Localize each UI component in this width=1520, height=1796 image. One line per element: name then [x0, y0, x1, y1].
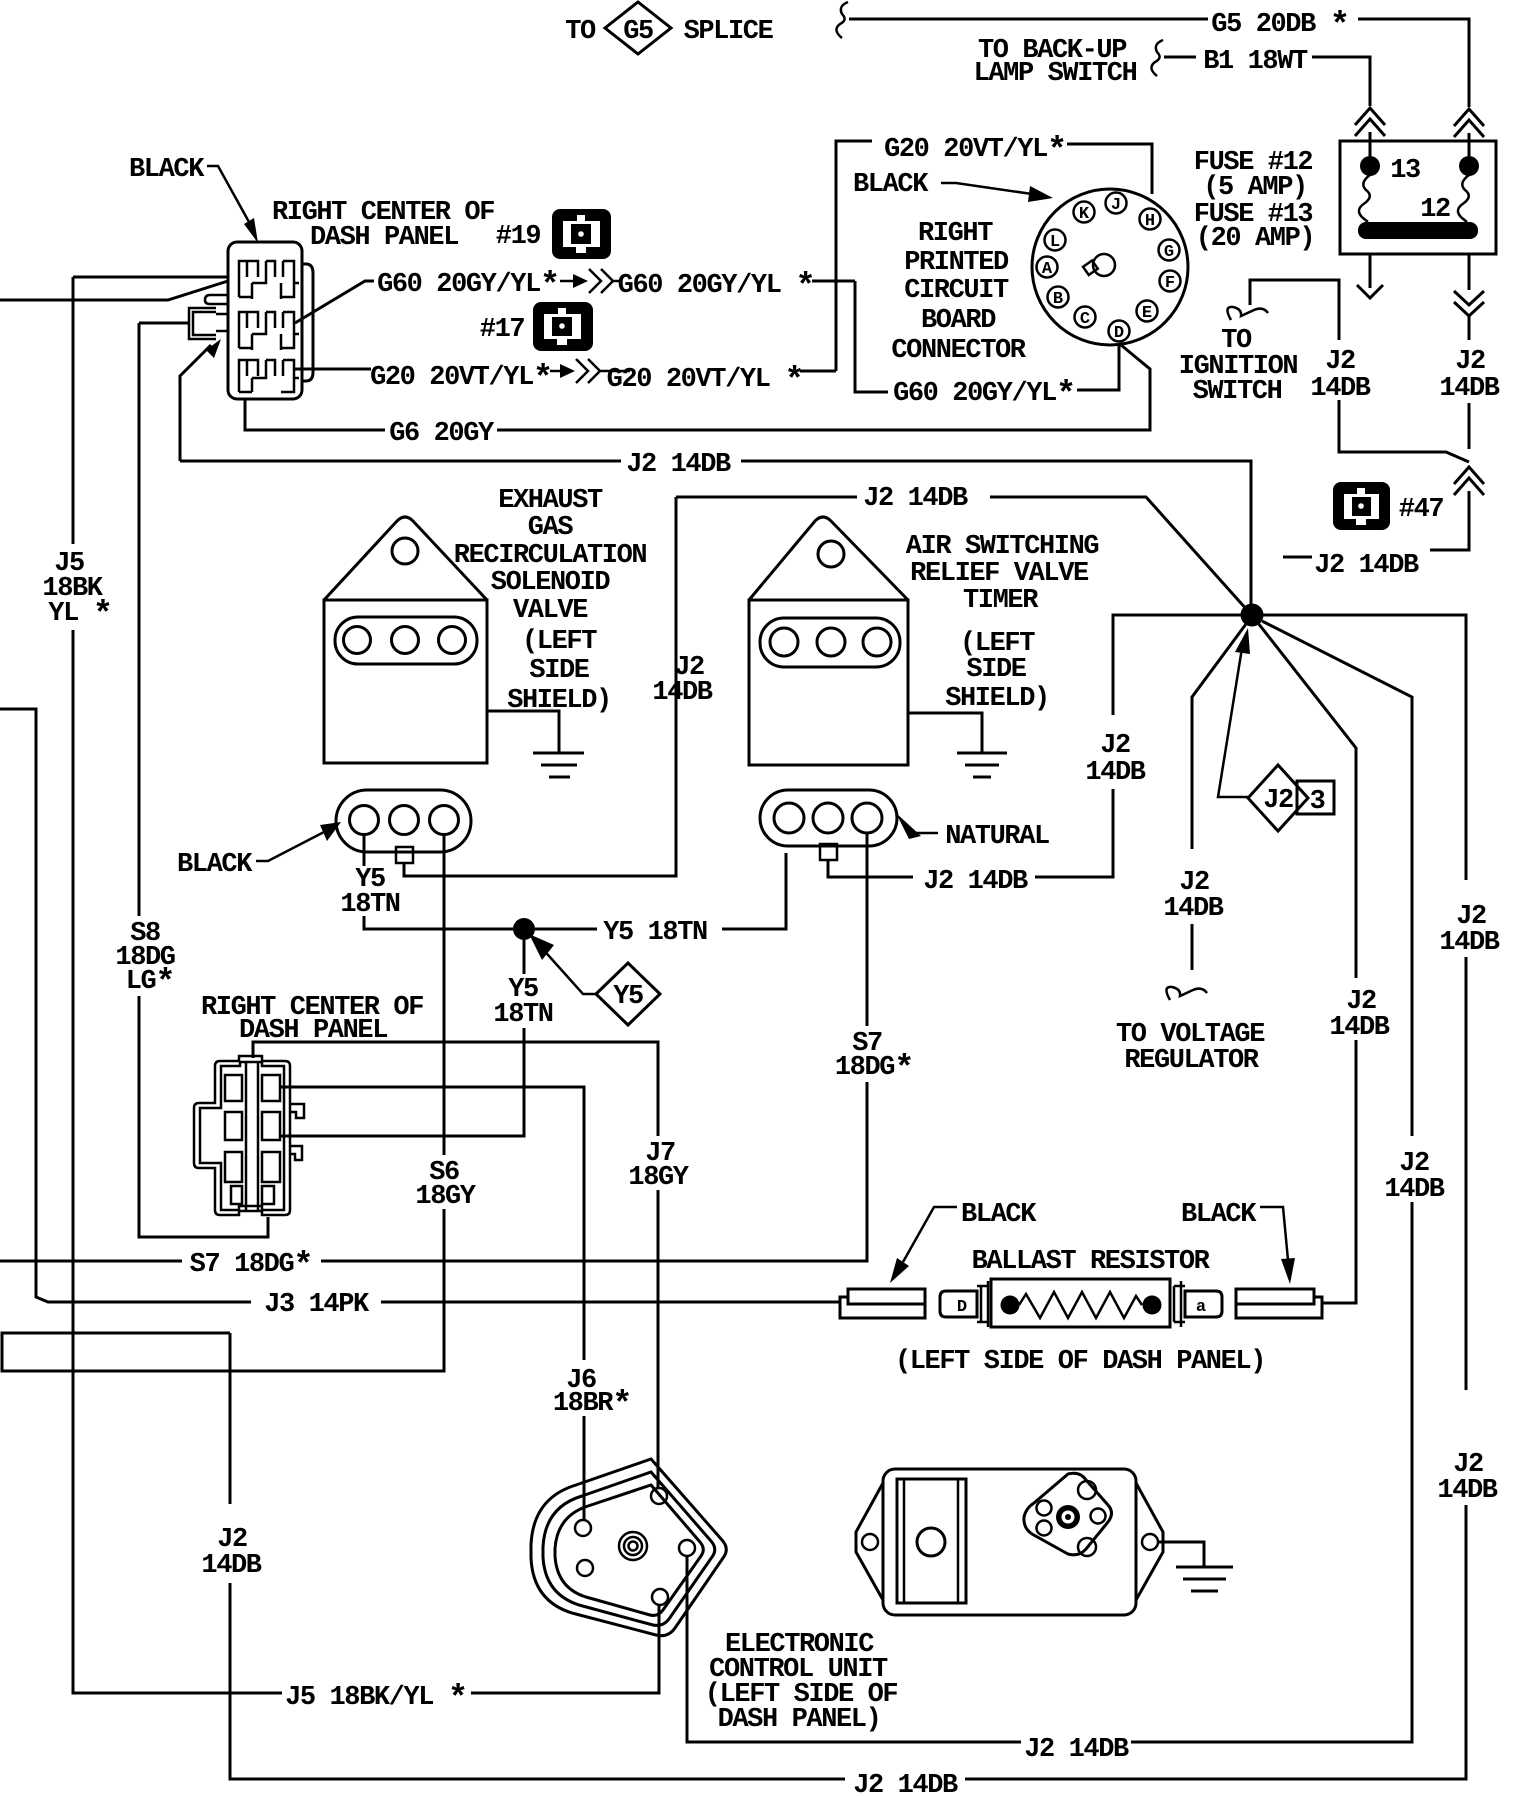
wire star to voltage regulator branch — [1192, 624, 1246, 849]
wire from left edge with diagonal into connector — [0, 281, 228, 300]
svg-text:F: F — [1165, 274, 1175, 293]
wire to ignition switch bracket — [1250, 280, 1339, 340]
leader arrow from BLACK to connector — [207, 166, 249, 222]
PCB connector terminal B — [1048, 287, 1069, 308]
svg-text:VALVE: VALVE — [513, 596, 588, 626]
wire G6 20GY to PCB connector — [497, 345, 1150, 430]
svg-text:L: L — [1050, 233, 1060, 252]
svg-text:14DB: 14DB — [652, 678, 712, 708]
distributor connector shield middle outline — [543, 1472, 715, 1625]
dash connector 2 cavities right — [262, 1075, 280, 1204]
svg-text:G6 20GY: G6 20GY — [389, 419, 495, 449]
wire S7 to left edge — [0, 1260, 182, 1263]
wire S6 from EGR right pin down — [443, 835, 446, 1155]
wire B1 into fuse box — [1369, 132, 1372, 158]
air valve middle pin tab — [820, 844, 837, 860]
wire ECU to ground — [1158, 1542, 1204, 1567]
svg-text:B1 18WT: B1 18WT — [1203, 47, 1308, 77]
wire J2 14DB y497 label to star diagonal — [990, 497, 1248, 611]
svg-text:A: A — [1042, 260, 1053, 279]
svg-text:SHIELD): SHIELD) — [945, 684, 1049, 714]
ECU right mounting tab — [1136, 1483, 1163, 1600]
ECU left mounting tab — [856, 1483, 883, 1600]
leader arrow BLACK to left ballast connector — [903, 1207, 957, 1262]
svg-text:J: J — [1111, 196, 1121, 215]
PCB connector terminal H — [1140, 209, 1161, 230]
brace left of G5 20DB wire — [836, 2, 848, 38]
EGR valve terminal pill — [335, 617, 477, 664]
wire from fuse 13 down with open arrow — [1357, 254, 1383, 298]
wire star right arm — [1263, 615, 1466, 880]
wire Y5 from dot to label — [535, 928, 597, 931]
ballast resistor right dot — [1143, 1296, 1162, 1315]
svg-text:B: B — [1053, 290, 1063, 309]
wire EGR middle pin to star junction via x676 — [404, 648, 676, 876]
svg-text:RIGHT: RIGHT — [918, 219, 993, 249]
connector lower left tab double outline — [189, 308, 216, 339]
svg-text:(20 AMP): (20 AMP) — [1196, 224, 1314, 254]
wire G5 20DB from brace to label — [849, 18, 1208, 21]
connector right side bump — [302, 264, 313, 381]
wire from fuse 12 down — [1468, 254, 1471, 290]
wire G60 right label to vertical — [812, 280, 855, 283]
fuse bus bar — [1358, 222, 1478, 239]
ECU right tab hole — [1142, 1534, 1158, 1550]
wire G20 vertical bracket — [836, 141, 872, 371]
svg-text:14DB: 14DB — [1163, 894, 1223, 924]
svg-text:J2 14DB: J2 14DB — [853, 1771, 958, 1796]
air valve body — [749, 600, 908, 765]
brace right of lamp switch label — [1151, 40, 1163, 76]
svg-text:(LEFT SIDE OF DASH PANEL): (LEFT SIDE OF DASH PANEL) — [895, 1347, 1265, 1377]
svg-text:PRINTED: PRINTED — [904, 248, 1009, 278]
svg-text:a: a — [1196, 1298, 1206, 1317]
ECU connector kite outline — [1024, 1473, 1112, 1555]
wire EGR left pin down — [363, 834, 366, 866]
wire stub left of J2 14DB label — [1283, 556, 1312, 559]
ground symbol ECU — [1176, 1567, 1233, 1591]
svg-text:BLACK: BLACK — [1181, 1200, 1257, 1230]
svg-text:18TN: 18TN — [493, 1000, 552, 1030]
svg-text:DASH PANEL): DASH PANEL) — [718, 1705, 881, 1735]
wire stub tab to connector — [216, 314, 228, 331]
PCB connector terminal K — [1074, 202, 1095, 223]
PCB connector terminal F — [1160, 271, 1181, 292]
svg-text:14DB: 14DB — [1329, 1013, 1389, 1043]
svg-text:LAMP SWITCH: LAMP SWITCH — [974, 59, 1137, 89]
svg-text:J2: J2 — [1325, 347, 1355, 377]
wire G6 20GY from connector bottom — [245, 399, 385, 430]
air switching valve mounting triangle — [749, 517, 908, 600]
air valve connector pins — [774, 803, 804, 833]
svg-text:18GY: 18GY — [628, 1163, 689, 1193]
splice icon #17 — [533, 302, 593, 351]
wire air valve to ground — [908, 713, 982, 753]
wire EGR left pin to Y5 junction — [364, 916, 513, 929]
svg-text:#47: #47 — [1399, 495, 1444, 525]
svg-text:D: D — [957, 1298, 967, 1317]
wire G5 into fuse box — [1468, 133, 1471, 158]
svg-text:J2: J2 — [1100, 731, 1130, 761]
wire J3 14PK label to ballast left connector — [381, 1301, 840, 1304]
wire Y5 down to dash connector 2 — [280, 1028, 524, 1136]
svg-text:SIDE: SIDE — [966, 655, 1026, 685]
svg-text:TO: TO — [565, 17, 596, 47]
svg-text:14DB: 14DB — [201, 1551, 261, 1581]
wire B1 18WT to fuse 13 — [1312, 57, 1370, 106]
svg-text:(LEFT: (LEFT — [522, 627, 597, 657]
connector chevrons below fuse 12 — [1454, 291, 1484, 316]
wire air valve right pin down (S7) — [866, 834, 869, 1026]
wire G60 vertical to bottom label — [855, 281, 888, 392]
wire J6 lower to distributor pin — [583, 1416, 586, 1521]
svg-text:13: 13 — [1390, 156, 1420, 186]
ballast left clip brackets — [977, 1281, 988, 1327]
fuse 13 terminal dot — [1360, 156, 1380, 176]
ECU connector center bullseye — [1056, 1505, 1080, 1529]
svg-text:BOARD: BOARD — [921, 306, 996, 336]
svg-text:C: C — [1080, 310, 1090, 329]
ground symbol EGR — [533, 753, 584, 777]
leader arrow J2 reference diamond to star — [1218, 648, 1248, 797]
svg-text:(5 AMP): (5 AMP) — [1203, 173, 1307, 203]
wire J3 14PK from left edge — [0, 709, 251, 1302]
wire J2 14DB left column from bracket down — [229, 1333, 232, 1504]
coupler arrow between G60 labels — [560, 280, 576, 283]
connector body right center of dash panel — [228, 242, 302, 399]
ballast right clip brackets — [1174, 1281, 1185, 1327]
PCB connector terminal E — [1137, 301, 1158, 322]
svg-text:Y5: Y5 — [613, 982, 643, 1012]
svg-text:J2 14DB: J2 14DB — [1024, 1735, 1129, 1765]
EGR valve mounting hole — [392, 538, 418, 564]
connector chevrons at junction of feeds — [1454, 467, 1484, 495]
svg-text:RELIEF VALVE: RELIEF VALVE — [910, 559, 1089, 589]
reference box 3 — [1297, 781, 1334, 814]
ballast resistor left dot — [1001, 1296, 1020, 1315]
wire J7 lower to distributor top pin — [657, 1190, 660, 1488]
distributor connector shield inner outline — [555, 1485, 703, 1615]
ECU connector pins — [1078, 1481, 1096, 1499]
air valve mounting hole — [818, 541, 844, 567]
wire down to J2 14DB label — [1430, 491, 1469, 550]
EGR valve terminals — [344, 627, 371, 654]
wire air valve middle pin toward star — [828, 860, 913, 877]
EGR connector pins — [350, 806, 379, 835]
wire S6 lower to left edge bracket — [2, 1209, 444, 1371]
svg-text:J2 14DB: J2 14DB — [863, 484, 968, 514]
broken wire hook to voltage regulator — [1166, 987, 1207, 1000]
svg-text:SWITCH: SWITCH — [1193, 377, 1282, 407]
fuse 12 element squiggle — [1458, 175, 1469, 222]
svg-text:14DB: 14DB — [1310, 374, 1370, 404]
svg-text:BALLAST RESISTOR: BALLAST RESISTOR — [972, 1247, 1211, 1277]
wire x1113 riser to star left arm — [1113, 615, 1241, 715]
EGR valve body — [324, 600, 487, 763]
svg-text:SOLENOID: SOLENOID — [491, 568, 611, 598]
PCB connector circle — [1032, 189, 1188, 345]
svg-text:D: D — [1114, 324, 1124, 343]
PCB connector terminal L — [1045, 230, 1066, 251]
dash connector 2 inner outline — [200, 1062, 284, 1210]
svg-text:18TN: 18TN — [340, 890, 399, 920]
svg-text:3: 3 — [1310, 787, 1325, 817]
svg-text:J3 14PK: J3 14PK — [264, 1290, 370, 1320]
wire Y5 label to air valve left pin — [722, 853, 786, 929]
svg-text:18GY: 18GY — [415, 1182, 476, 1212]
connector terminal maze row 1 — [239, 261, 299, 299]
svg-text:EXHAUST: EXHAUST — [498, 486, 603, 516]
wire G5 20DB from label to fuse 12 — [1358, 19, 1469, 107]
wire G60 diagonal from connector to label — [295, 281, 374, 323]
svg-text:J2 14DB: J2 14DB — [1314, 551, 1419, 581]
wire J2 14DB from connector area to star (y461) — [180, 460, 621, 463]
PCB connector terminal A — [1037, 257, 1058, 278]
distributor connector shield outer outline — [531, 1459, 726, 1636]
wire far right branch bottom — [965, 1505, 1466, 1779]
ballast right terminal box — [1185, 1291, 1222, 1317]
star junction dot — [1241, 604, 1264, 627]
svg-text:K: K — [1079, 205, 1090, 224]
ECU left tab hole — [862, 1534, 878, 1550]
wire bottom right branch lower — [1131, 1202, 1412, 1742]
dash connector 2 right brackets — [290, 1104, 304, 1160]
wire J5 label to distributor bottom pin — [471, 1605, 659, 1693]
leader arrow BLACK to right ballast connector — [1260, 1207, 1288, 1260]
connector chevrons on B1 wire — [1355, 108, 1385, 136]
wire J6 from connector 2 to riser — [280, 1087, 584, 1360]
wire S8 vertical upper — [138, 323, 141, 916]
PCB connector terminal C — [1075, 307, 1096, 328]
wire J5 into connector from left — [73, 276, 228, 279]
ballast right harness connector — [1236, 1289, 1322, 1318]
svg-text:SPLICE: SPLICE — [684, 17, 774, 47]
wire G20 from connector to label row 2 — [295, 368, 371, 371]
svg-text:14DB: 14DB — [1085, 758, 1145, 788]
wire star to bottom right branch — [1262, 621, 1412, 1136]
wire B1 18WT left segment — [1164, 56, 1196, 59]
wire EGR valve to ground — [487, 711, 559, 753]
label NATURAL with arrow — [896, 813, 921, 839]
splice icon #19 — [552, 209, 611, 259]
svg-text:REGULATOR: REGULATOR — [1124, 1046, 1259, 1076]
wire J2 14DB below fuse 12 upper segment — [1468, 316, 1471, 340]
svg-text:14DB: 14DB — [1439, 374, 1499, 404]
svg-text:E: E — [1142, 304, 1152, 323]
PCB connector terminal D — [1109, 321, 1130, 342]
svg-text:14DB: 14DB — [1437, 1476, 1497, 1506]
junction dot Y5 — [513, 918, 535, 940]
dash connector 2 cavities left — [225, 1075, 242, 1204]
ECU relay block hole — [917, 1528, 945, 1556]
wire J2 14DB y461 label to star drop — [741, 461, 1251, 604]
wire distributor right pin to bottom J2 line — [687, 1556, 1021, 1742]
svg-text:GAS: GAS — [528, 513, 574, 543]
svg-text:BLACK: BLACK — [129, 155, 205, 185]
ballast left harness connector — [840, 1289, 925, 1318]
air valve terminals — [770, 628, 798, 656]
svg-text:Y5 18TN: Y5 18TN — [603, 918, 707, 948]
wire J2 14DB left column lower — [230, 1583, 845, 1779]
svg-text:AIR SWITCHING: AIR SWITCHING — [906, 532, 1099, 562]
svg-text:NATURAL: NATURAL — [945, 822, 1049, 852]
wire Y5 from dot down — [523, 940, 526, 974]
wire ballast branch lower to ballast connector — [1323, 1040, 1356, 1303]
svg-text:CONNECTOR: CONNECTOR — [891, 336, 1026, 366]
svg-text:#19: #19 — [496, 222, 541, 252]
wire G20 label to PCB connector terminal H — [1067, 144, 1152, 194]
air valve terminal pill — [760, 618, 900, 667]
dash connector 2 center spine — [246, 1062, 258, 1210]
fuse 12 terminal dot — [1459, 156, 1479, 176]
wire J5 vertical lower — [73, 630, 282, 1693]
EGR connector middle pin tab — [396, 847, 413, 863]
wire J7 from connector 2 top — [253, 1042, 658, 1136]
wire star to ballast branch — [1258, 623, 1356, 978]
svg-text:BLACK: BLACK — [853, 170, 929, 200]
reference diamond Y5 — [596, 963, 660, 1025]
wire voltage regulator branch lower — [1191, 924, 1194, 970]
svg-text:J2: J2 — [1263, 786, 1293, 816]
ballast left terminal D box — [940, 1291, 977, 1317]
dash connector 2 outer outline — [194, 1056, 290, 1215]
svg-text:SIDE: SIDE — [529, 656, 589, 686]
svg-text:DASH PANEL: DASH PANEL — [310, 223, 458, 253]
wire J2 14DB fuse output lower segment to bend — [1468, 403, 1471, 449]
wire S7 riser lower segment — [321, 1082, 867, 1261]
ECU relay block — [897, 1479, 966, 1603]
svg-text:12: 12 — [1420, 195, 1450, 225]
wire J2 14DB inline label to x1113 riser — [1035, 789, 1113, 877]
node G5 splice diamond — [605, 2, 671, 54]
ground symbol air valve — [957, 753, 1007, 777]
coupler arrow between G20 labels — [550, 370, 562, 373]
leader arrow from Y5 diamond to junction dot — [540, 946, 596, 994]
EGR solenoid valve mounting triangle — [324, 517, 487, 600]
svg-text:J2: J2 — [1455, 347, 1485, 377]
fuse box outline — [1340, 141, 1496, 254]
svg-text:#17: #17 — [480, 315, 525, 345]
ballast resistor element zigzag — [1019, 1292, 1142, 1318]
svg-text:14DB: 14DB — [1439, 928, 1499, 958]
svg-text:G5: G5 — [623, 17, 653, 47]
wire far right branch middle — [1465, 957, 1468, 1390]
wire G60 bottom label to terminal D — [1077, 343, 1119, 390]
connector terminal maze row 2 — [239, 312, 299, 350]
svg-text:CIRCUIT: CIRCUIT — [904, 276, 1009, 306]
reference diamond J2 — [1248, 765, 1308, 831]
PCB connector terminal J — [1106, 193, 1127, 214]
fuse 13 element squiggle — [1359, 175, 1370, 222]
svg-text:RECIRCULATION: RECIRCULATION — [454, 541, 647, 571]
ECU main body — [883, 1469, 1136, 1615]
splice icon #47 — [1333, 482, 1390, 530]
connector chevrons on G5 wire — [1454, 109, 1484, 137]
svg-text:G: G — [1164, 243, 1174, 262]
PCB connector keyway — [1093, 254, 1115, 276]
leader arrow BLACK to PCB connector — [941, 183, 1032, 194]
wire J2 14DB y497 segment from x676 — [676, 497, 857, 648]
svg-text:14DB: 14DB — [1384, 1175, 1444, 1205]
svg-text:J2 14DB: J2 14DB — [923, 867, 1028, 897]
distributor connector pins — [575, 1520, 591, 1536]
connector terminal maze row 3 — [239, 360, 299, 392]
svg-text:BLACK: BLACK — [177, 850, 253, 880]
EGR harness connector oval — [336, 790, 471, 852]
svg-text:BLACK: BLACK — [961, 1200, 1037, 1230]
wire S8 horizontal into left tab — [139, 322, 189, 325]
broken wire hook to ignition switch — [1227, 307, 1268, 320]
leader arrow BLACK to EGR connector — [256, 832, 324, 861]
svg-text:TIMER: TIMER — [963, 586, 1039, 616]
wire S8 vertical lower to connector 2 — [139, 996, 268, 1237]
ballast resistor body — [991, 1279, 1170, 1327]
distributor connector center bullseye — [619, 1532, 647, 1560]
svg-text:H: H — [1145, 212, 1155, 231]
wire J5 vertical upper — [72, 277, 75, 544]
wire J2 14DB diagonal from connector with arrow — [180, 345, 211, 461]
svg-text:J2 14DB: J2 14DB — [626, 450, 731, 480]
PCB connector terminal G — [1159, 240, 1180, 261]
wire G20 row2 right label to vertical bracket — [800, 370, 836, 373]
air valve harness connector oval — [760, 790, 897, 846]
wire ignition feed lower segment joining fuse wire — [1339, 400, 1469, 462]
connector upper left tab — [205, 295, 228, 304]
